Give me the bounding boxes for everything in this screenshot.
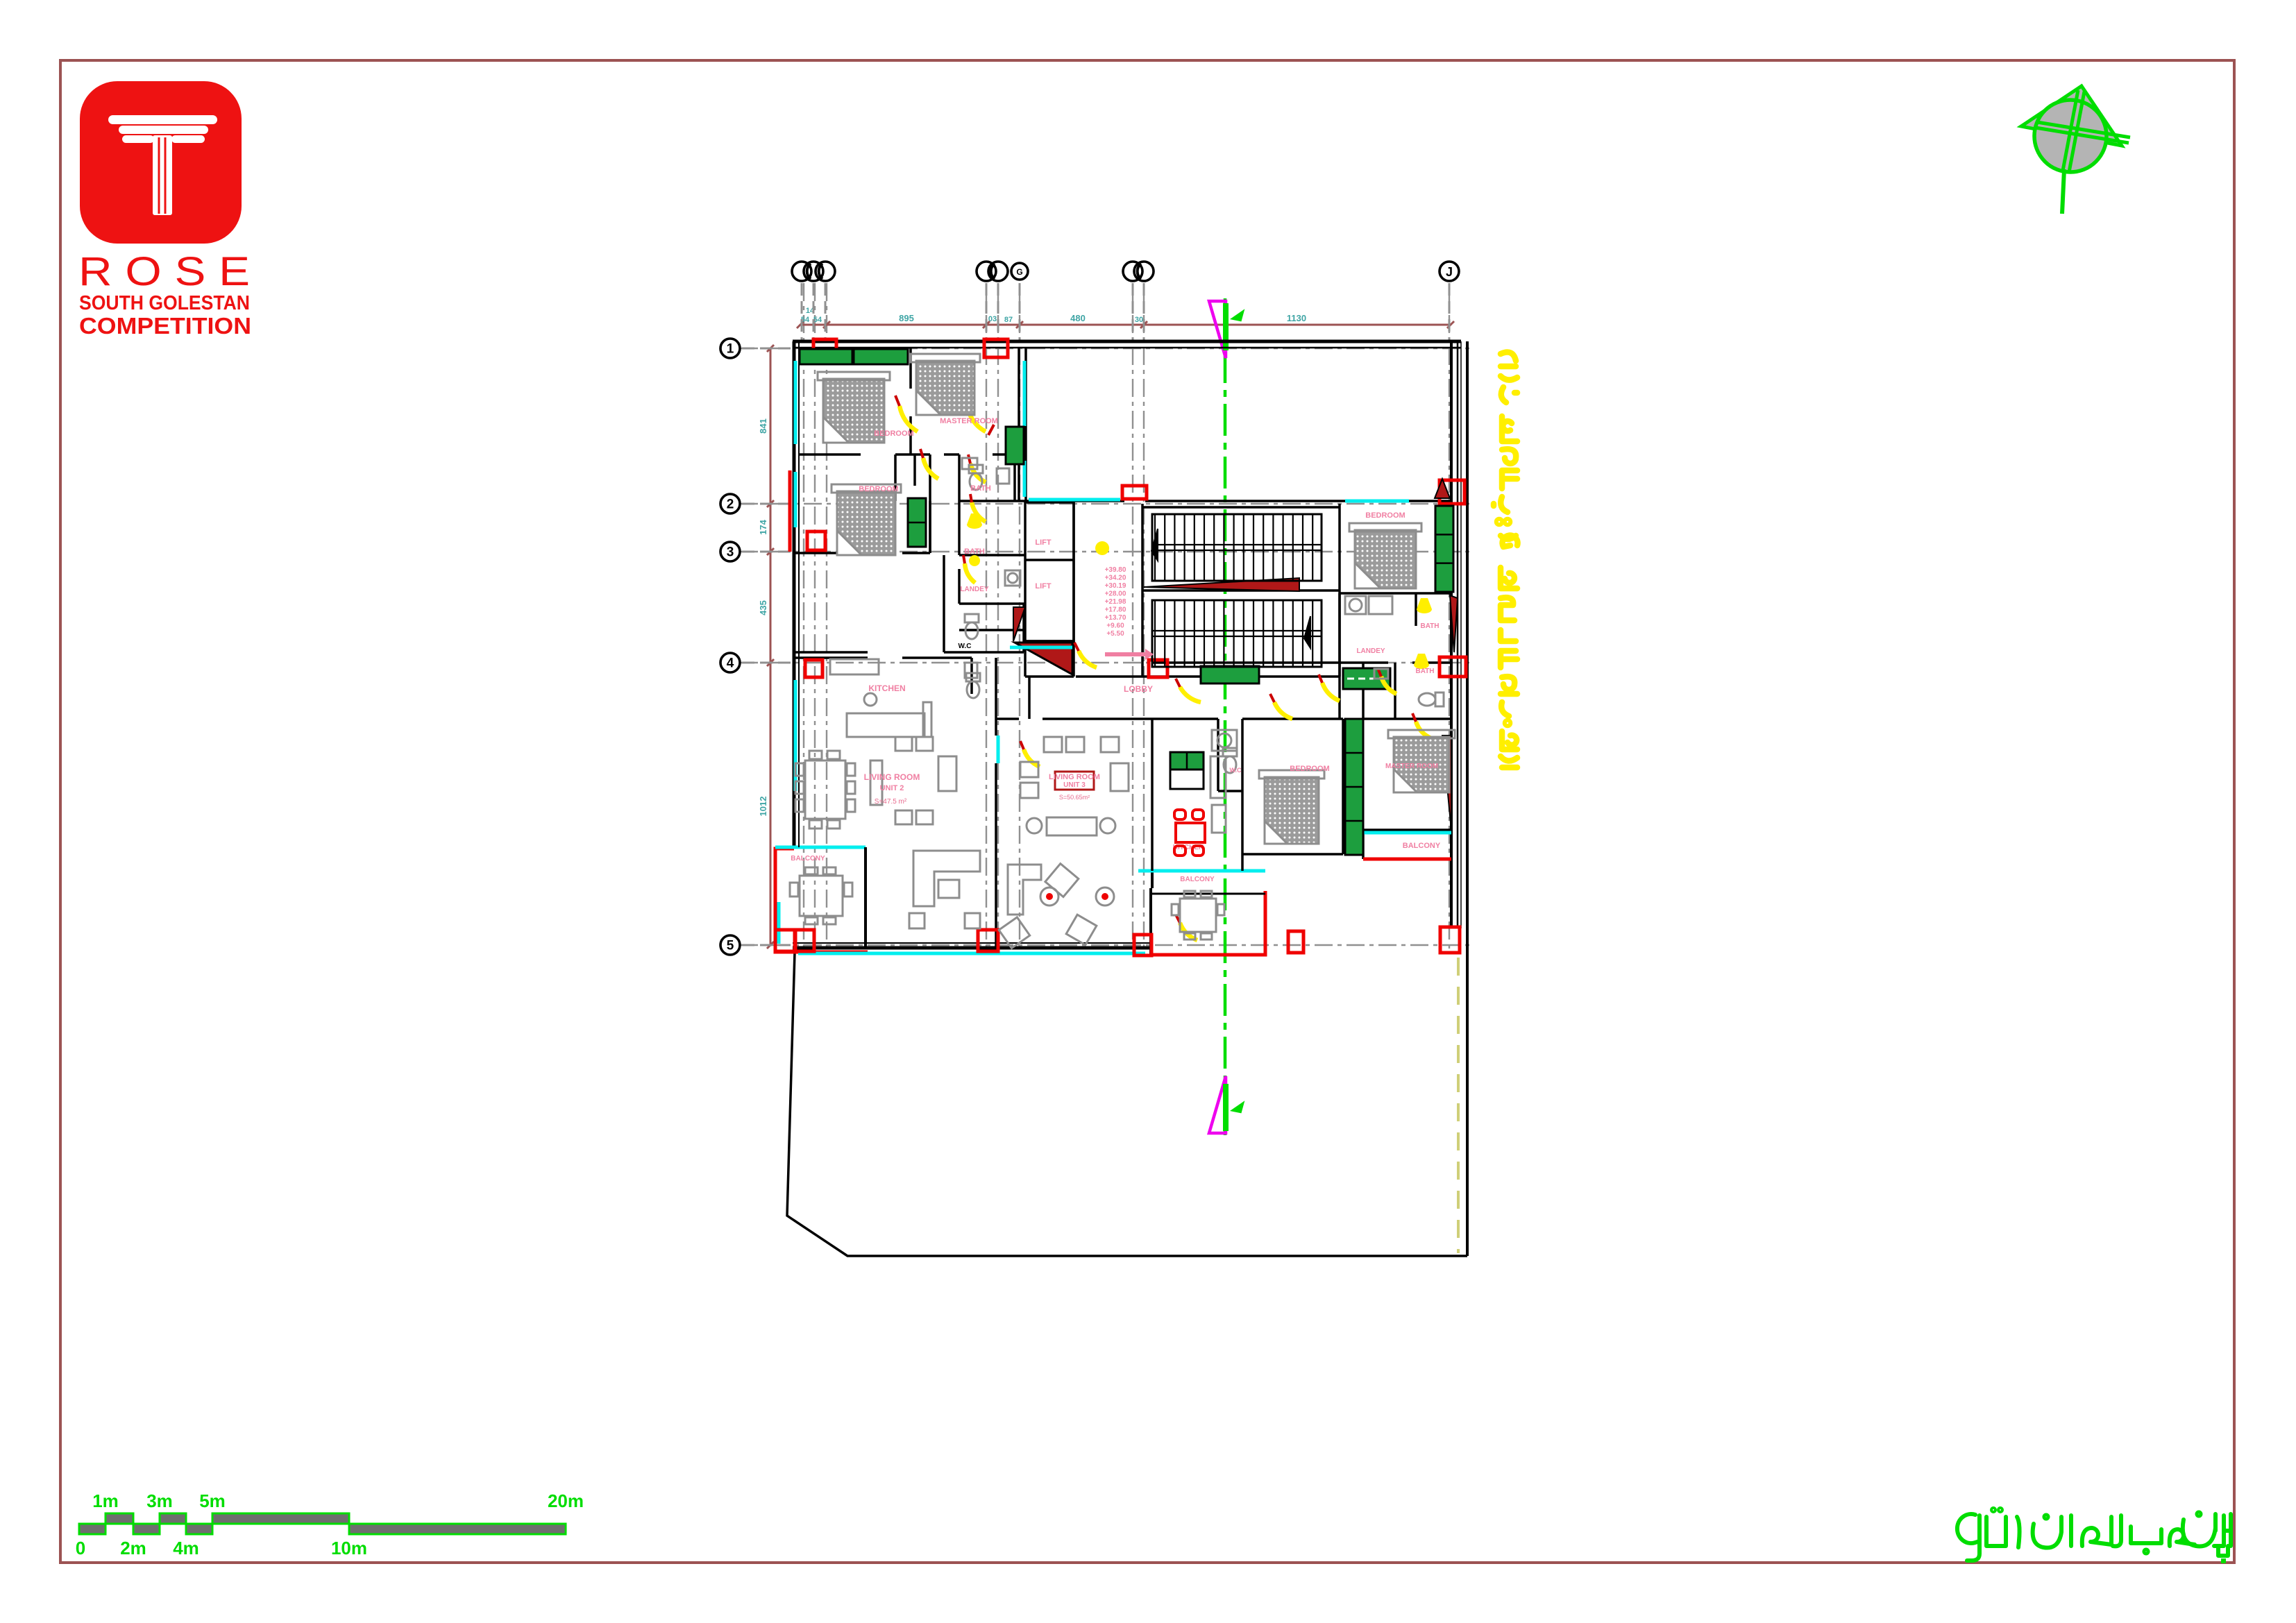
svg-text:BEDROOM: BEDROOM — [874, 430, 913, 438]
svg-text:20m: 20m — [548, 1490, 584, 1511]
svg-text:LIVING ROOM: LIVING ROOM — [864, 772, 920, 782]
svg-text:+17.80: +17.80 — [1105, 606, 1126, 614]
svg-text:54: 54 — [813, 316, 822, 324]
svg-text:BATH: BATH — [970, 484, 991, 493]
svg-text:SOUTH GOLESTAN: SOUTH GOLESTAN — [79, 292, 250, 314]
svg-text:435: 435 — [758, 600, 768, 615]
svg-text:3: 3 — [727, 545, 734, 560]
svg-text:LANDEY: LANDEY — [960, 586, 988, 593]
svg-text:BEDROOM: BEDROOM — [1290, 765, 1329, 773]
svg-text:3m: 3m — [146, 1490, 173, 1511]
svg-text:BEDROOM: BEDROOM — [1365, 511, 1405, 520]
svg-text:MASTER ROOM: MASTER ROOM — [940, 417, 998, 425]
svg-text:+21.98: +21.98 — [1105, 598, 1126, 606]
svg-text:BEDROOM: BEDROOM — [859, 485, 898, 493]
svg-text:5m: 5m — [199, 1490, 226, 1511]
svg-text:+30.19: +30.19 — [1105, 582, 1126, 590]
svg-text:1012: 1012 — [758, 797, 768, 817]
svg-text:+34.20: +34.20 — [1105, 575, 1126, 582]
svg-text:BATH: BATH — [1415, 668, 1434, 675]
svg-text:+13.70: +13.70 — [1105, 614, 1126, 622]
svg-text:G: G — [1016, 267, 1022, 277]
svg-text:S=47.5 m²: S=47.5 m² — [875, 798, 907, 806]
svg-text:COMPETITION: COMPETITION — [79, 313, 251, 339]
svg-text:480: 480 — [1070, 313, 1086, 323]
svg-text:BALCONY: BALCONY — [791, 855, 825, 863]
svg-text:BATH: BATH — [1420, 622, 1439, 630]
svg-text:BALCONY: BALCONY — [1403, 842, 1441, 850]
svg-text:+39.80: +39.80 — [1105, 566, 1126, 574]
svg-text:2: 2 — [727, 498, 734, 512]
svg-text:S=50.65m²: S=50.65m² — [1059, 794, 1090, 801]
svg-text:2m: 2m — [120, 1538, 146, 1558]
svg-text:841: 841 — [758, 418, 768, 434]
svg-text:BATH: BATH — [964, 547, 985, 556]
svg-text:895: 895 — [899, 313, 914, 323]
svg-text:87: 87 — [1004, 316, 1013, 324]
svg-text:UNIT 3: UNIT 3 — [1063, 781, 1086, 789]
svg-text:LIFT: LIFT — [1035, 582, 1051, 590]
svg-text:KITCHEN: KITCHEN — [868, 683, 905, 693]
svg-text:174: 174 — [758, 519, 768, 534]
svg-text:LIFT: LIFT — [1035, 538, 1051, 547]
svg-text:30: 30 — [1135, 316, 1143, 324]
svg-text:J: J — [1446, 265, 1453, 279]
svg-text:W.C: W.C — [959, 643, 972, 650]
svg-text:5: 5 — [727, 939, 734, 953]
svg-text:1: 1 — [727, 342, 734, 357]
svg-text:LANDEY: LANDEY — [1356, 647, 1385, 655]
svg-text:0: 0 — [76, 1538, 85, 1558]
svg-text:UNIT 2: UNIT 2 — [880, 784, 904, 792]
svg-text:BALCONY: BALCONY — [1180, 876, 1215, 883]
svg-text:4m: 4m — [173, 1538, 199, 1558]
svg-text:10m: 10m — [331, 1538, 367, 1558]
svg-text:R O S E: R O S E — [78, 249, 250, 294]
svg-text:+28.00: +28.00 — [1105, 590, 1126, 598]
svg-text:+9.60: +9.60 — [1106, 622, 1124, 630]
svg-text:LOBBY: LOBBY — [1124, 684, 1153, 694]
svg-text:+5.50: +5.50 — [1106, 630, 1124, 638]
svg-text:4: 4 — [727, 656, 734, 671]
svg-text:1m: 1m — [92, 1490, 119, 1511]
svg-text:03: 03 — [988, 315, 997, 323]
svg-text:LIVING ROOM: LIVING ROOM — [1049, 773, 1100, 781]
svg-text:1130: 1130 — [1287, 313, 1306, 323]
svg-text:W.C: W.C — [1230, 767, 1242, 774]
svg-text:MASTER ROOM: MASTER ROOM — [1385, 763, 1438, 770]
